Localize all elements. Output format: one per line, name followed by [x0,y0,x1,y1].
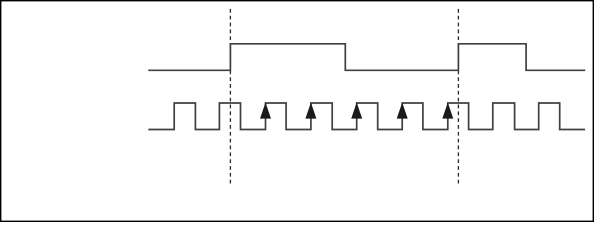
clock edge arrow 2 [305,103,316,119]
clock edge arrow 5 [442,103,453,119]
top waveform (gate/enable signal) [148,44,585,71]
clock edge arrow 4 [397,103,408,119]
clock edge arrow 3 [351,103,362,119]
clock edge arrow 1 [260,103,271,119]
clock waveform [148,103,585,130]
dashed marker line 2 (sample window end) [457,9,459,184]
dashed marker line 1 (sample window start) [229,9,231,184]
